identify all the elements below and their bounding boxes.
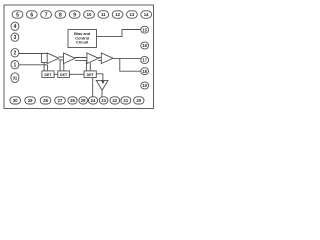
svg-text:24: 24	[91, 98, 96, 103]
svg-text:DET: DET	[44, 73, 52, 77]
border frame	[4, 5, 154, 109]
wire branch to pin 18	[120, 58, 141, 71]
wire summing DET2-DET3	[70, 73, 85, 75]
pin 3	[11, 33, 19, 41]
pin 27	[55, 97, 66, 104]
svg-text:DET: DET	[60, 73, 68, 77]
pin 23	[99, 97, 108, 104]
wire pin 2 input	[19, 53, 48, 55]
wire tap B to DET1	[47, 65, 49, 71]
pin 24	[88, 97, 97, 104]
svg-text:11: 11	[101, 12, 106, 17]
amplifier A1	[47, 53, 59, 64]
pin 16	[141, 42, 149, 49]
pin 2	[11, 49, 19, 57]
svg-text:26: 26	[70, 98, 75, 103]
svg-text:3: 3	[14, 35, 17, 41]
pin 14	[141, 11, 152, 18]
svg-text:10: 10	[87, 12, 92, 17]
svg-text:4: 4	[14, 24, 17, 30]
pin 19	[141, 82, 149, 89]
amplifier A3	[87, 53, 99, 64]
svg-text:Circuit: Circuit	[76, 40, 89, 45]
svg-text:19: 19	[142, 83, 147, 88]
pin 17	[141, 57, 149, 64]
svg-text:21: 21	[123, 98, 128, 103]
svg-text:14: 14	[144, 12, 149, 17]
pin 10	[84, 11, 95, 18]
pin 20	[134, 97, 144, 104]
wire buffer output to pin 23	[101, 90, 103, 97]
svg-text:27: 27	[58, 98, 63, 103]
amplifier A2	[64, 53, 76, 64]
pin 31	[11, 73, 19, 83]
pin 28	[40, 97, 51, 104]
wire pin 1 input	[19, 64, 48, 66]
pin 5	[12, 11, 23, 18]
svg-text:13: 13	[130, 12, 135, 17]
pin 18	[141, 68, 149, 75]
svg-text:1: 1	[14, 62, 17, 68]
wire taps to DET3	[86, 61, 90, 71]
amplifier A4	[101, 53, 113, 64]
pin 9	[69, 11, 80, 18]
svg-text:2: 2	[14, 51, 17, 57]
pin 1	[11, 61, 19, 69]
pin 21	[121, 97, 131, 104]
pin 6	[26, 11, 37, 18]
wire tap A to DET1	[41, 54, 47, 71]
pin 13	[127, 11, 138, 18]
pin 4	[11, 22, 19, 30]
svg-text:28: 28	[43, 98, 48, 103]
svg-text:6: 6	[30, 12, 33, 18]
detector DET1	[42, 71, 54, 78]
detector DET3	[84, 71, 96, 78]
pin 26	[68, 97, 77, 104]
pin 30	[10, 97, 21, 104]
wire summing DET3 to buffer	[96, 74, 103, 81]
wire bias box to pin 15	[97, 30, 141, 37]
wire rails A1-A2	[59, 57, 64, 60]
wire rails A3-A4	[98, 58, 101, 61]
svg-text:12: 12	[115, 12, 120, 17]
svg-text:9: 9	[73, 12, 76, 18]
wire A4 output to pin 17	[113, 57, 141, 59]
svg-text:22: 22	[112, 98, 117, 103]
pin 7	[41, 11, 52, 18]
wire rails A2-A3	[75, 58, 87, 61]
pin 12	[112, 11, 123, 18]
wire DET3 to pin 24	[92, 78, 94, 97]
svg-text:18: 18	[142, 69, 147, 74]
pin 11	[98, 11, 109, 18]
arrowhead into buffer	[101, 81, 104, 84]
svg-text:5: 5	[16, 12, 19, 18]
pin 8	[55, 11, 66, 18]
wire taps to DET2	[60, 60, 64, 71]
wire summing DET1-DET2	[54, 73, 58, 75]
svg-text:15: 15	[142, 27, 147, 32]
svg-text:20: 20	[136, 98, 141, 103]
pin 15	[141, 26, 149, 33]
svg-text:29: 29	[28, 98, 33, 103]
pin 25	[79, 97, 88, 104]
Bias and Control Circuit box	[68, 30, 97, 48]
buffer amp (down)	[96, 80, 108, 90]
svg-text:16: 16	[142, 43, 147, 48]
svg-text:8: 8	[59, 12, 62, 18]
svg-text:23: 23	[101, 98, 106, 103]
svg-text:31: 31	[13, 76, 18, 81]
svg-text:DET: DET	[87, 73, 95, 77]
svg-text:30: 30	[13, 98, 18, 103]
pin 29	[25, 97, 36, 104]
pin 22	[110, 97, 120, 104]
svg-text:7: 7	[45, 12, 48, 18]
svg-text:25: 25	[81, 98, 86, 103]
detector DET2	[58, 71, 70, 78]
svg-text:17: 17	[142, 58, 147, 63]
